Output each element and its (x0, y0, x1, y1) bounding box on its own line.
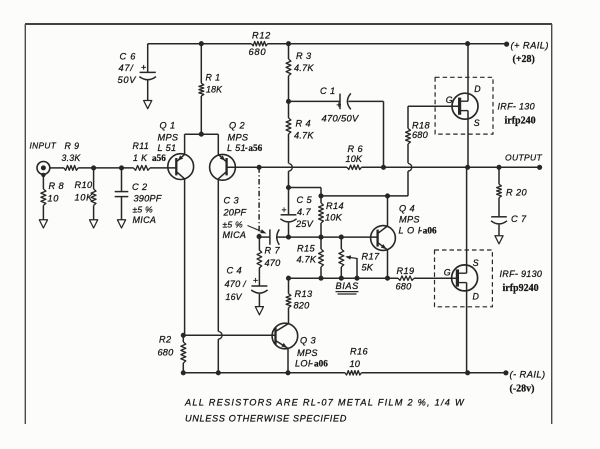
svg-text:C 3: C 3 (224, 196, 240, 206)
svg-text:MPS: MPS (228, 133, 249, 143)
svg-text:Q 1: Q 1 (160, 121, 176, 131)
svg-text:680: 680 (249, 46, 267, 57)
svg-text:-: - (310, 359, 313, 369)
label -28v (510, 384, 535, 395)
svg-text:10K: 10K (346, 154, 363, 164)
svg-text:10K: 10K (325, 213, 343, 223)
svg-text:4.7: 4.7 (297, 207, 311, 217)
node INPUT jack (30, 141, 57, 177)
svg-text:+: + (282, 205, 287, 215)
svg-text:Q 4: Q 4 (399, 204, 415, 214)
resistor R14 10K (319, 196, 344, 237)
resistor R15 4.7K (297, 237, 324, 278)
svg-text:R2: R2 (159, 335, 172, 345)
svg-text:+: + (336, 100, 341, 110)
resistor R16 10 (345, 346, 369, 375)
node +RAIL terminal (504, 40, 549, 51)
svg-text:IRF- 130: IRF- 130 (498, 102, 535, 112)
svg-text:R 6: R 6 (348, 144, 364, 154)
svg-text:470/50V: 470/50V (322, 113, 359, 124)
svg-text:20PF: 20PF (223, 208, 248, 218)
svg-text:G: G (444, 267, 451, 277)
svg-text:10K: 10K (75, 193, 94, 203)
svg-text:BIAS: BIAS (336, 281, 360, 291)
svg-text:470 /: 470 / (225, 279, 248, 289)
svg-text:S: S (473, 258, 479, 268)
resistor R1 18K (199, 44, 223, 135)
svg-text:OUTPUT: OUTPUT (505, 152, 542, 162)
ground (C2) (117, 220, 125, 228)
note: all resistors are RL-07 metal film (184, 398, 465, 424)
svg-text:4.7K: 4.7K (294, 131, 314, 141)
label +28 (513, 54, 535, 65)
svg-text:R 3: R 3 (296, 51, 312, 61)
svg-text:MICA: MICA (133, 215, 157, 225)
wire Q2 collector to bottom rail (216, 179, 222, 376)
svg-text:R15: R15 (297, 244, 316, 254)
svg-text:R12: R12 (252, 31, 271, 41)
svg-text:MPS: MPS (158, 133, 179, 143)
svg-text:IRF- 9130: IRF- 9130 (500, 269, 543, 279)
svg-text:C 4: C 4 (227, 266, 243, 276)
resistor R11 1K (133, 141, 177, 170)
resistor R6 10K (346, 144, 364, 169)
svg-text:Q 2: Q 2 (229, 121, 245, 131)
svg-text:R18: R18 (412, 120, 431, 130)
wire common emitters node (185, 132, 219, 137)
node OUTPUT terminal (505, 152, 542, 170)
svg-text:(+ RAIL): (+ RAIL) (511, 40, 549, 51)
resistor R19 680 (396, 266, 415, 292)
ground (C4) (255, 307, 263, 315)
svg-text:680: 680 (412, 130, 429, 140)
wire input line (50, 165, 134, 170)
svg-text:LOI: LOI (295, 359, 311, 369)
node -RAIL terminal (503, 369, 545, 380)
wire node C5/R4 junction (286, 185, 321, 196)
svg-text:a56: a56 (152, 153, 166, 163)
svg-text:C 6: C 6 (120, 52, 137, 62)
transistor Q3 MPS-L01-a06 (272, 323, 328, 373)
svg-text:C 1: C 1 (320, 86, 336, 96)
svg-text:R17: R17 (362, 252, 381, 262)
svg-text:470: 470 (265, 258, 282, 268)
transistor Q1 MPS-L51 (158, 121, 194, 336)
resistor R20 (497, 167, 528, 217)
svg-text:50V: 50V (118, 75, 137, 85)
potentiometer R17 5K (339, 237, 380, 278)
wire top rail (+) (148, 41, 507, 46)
svg-text:-: - (419, 226, 422, 236)
svg-text:18K: 18K (206, 85, 223, 95)
svg-text:(+28): (+28) (513, 54, 535, 65)
svg-text:820: 820 (294, 301, 311, 311)
svg-text:a56: a56 (248, 143, 262, 153)
svg-text:+: + (253, 276, 258, 286)
svg-text:L 51: L 51 (158, 143, 177, 153)
svg-text:47/: 47/ (119, 63, 135, 73)
svg-text:-: - (245, 143, 248, 153)
transistor Q4 MPS-L01-a06 (371, 196, 437, 278)
capacitor C6 47/50V (118, 44, 157, 101)
transistor Q2 MPS-L51-a56 (210, 121, 263, 181)
resistor R10 10K (75, 168, 97, 220)
resistor R4 4.7K (286, 101, 314, 187)
resistor R7 470 (257, 237, 281, 286)
svg-text:4.7K: 4.7K (297, 255, 317, 265)
svg-text:C 7: C 7 (511, 214, 527, 224)
capacitor C3 20PF MICA (223, 196, 289, 245)
resistor R9 3.3K (62, 141, 82, 170)
svg-text:R11: R11 (133, 141, 150, 151)
wire R2 node to Q3 base (183, 334, 275, 336)
svg-text:25V: 25V (295, 219, 314, 229)
svg-text:R19: R19 (397, 266, 415, 276)
svg-text:10: 10 (350, 359, 361, 369)
resistor R3 4.7K (286, 44, 314, 102)
resistor R12 680 (249, 31, 271, 58)
svg-text:R 8: R 8 (49, 181, 65, 191)
resistor R13 820 (286, 278, 313, 323)
svg-text:5K: 5K (362, 263, 374, 273)
svg-text:10: 10 (48, 194, 60, 204)
svg-text:R 4: R 4 (296, 119, 312, 129)
capacitor C4 470/16V (225, 266, 268, 307)
svg-text:L O I: L O I (399, 226, 421, 236)
capacitor C7 (491, 214, 527, 236)
svg-text:a06: a06 (423, 226, 437, 236)
svg-text:INPUT: INPUT (30, 141, 57, 151)
svg-text:S: S (474, 118, 480, 128)
svg-text:16V: 16V (226, 292, 243, 302)
svg-text:+: + (141, 63, 146, 73)
svg-text:680: 680 (396, 282, 413, 292)
svg-text:4.7K: 4.7K (294, 63, 314, 73)
ground (R10) (90, 220, 98, 228)
capacitor C1 470/50V (289, 86, 384, 167)
svg-text:D: D (474, 84, 481, 94)
node R3/R4/C1 junction (286, 99, 291, 104)
svg-text:C 2: C 2 (132, 182, 148, 192)
svg-text:(-28v): (-28v) (510, 384, 535, 395)
svg-text:±5 %: ±5 % (223, 220, 243, 230)
svg-text:±5 %: ±5 % (133, 205, 153, 215)
svg-text:1 K: 1 K (133, 153, 148, 163)
svg-text:G: G (446, 95, 453, 105)
svg-text:R 1: R 1 (206, 73, 221, 83)
svg-text:R10: R10 (75, 180, 94, 190)
wire Q2 base dash-dot to C3 (257, 167, 262, 239)
svg-text:C 5: C 5 (297, 195, 313, 205)
wire feedback bus (286, 235, 378, 240)
svg-text:MICA: MICA (223, 230, 247, 240)
wire bottom rail (-) (181, 370, 506, 375)
svg-text:a06: a06 (314, 359, 328, 369)
svg-text:R 9: R 9 (65, 141, 80, 151)
svg-text:R 20: R 20 (506, 188, 527, 198)
svg-text:R13: R13 (295, 289, 314, 299)
resistor R8 10 (41, 175, 65, 220)
wire output/feedback line (227, 165, 540, 170)
capacitor C2 390PF MICA (115, 168, 163, 225)
svg-text:irfp240: irfp240 (505, 116, 536, 127)
svg-text:ALL RESISTORS ARE RL-07 METAL: ALL RESISTORS ARE RL-07 METAL FILM 2 %, … (184, 398, 465, 408)
ground (R8) (39, 220, 47, 228)
svg-text:390PF: 390PF (134, 194, 163, 204)
svg-text:MPS: MPS (399, 215, 420, 225)
svg-text:(- RAIL): (- RAIL) (510, 369, 546, 380)
svg-text:R 7: R 7 (265, 246, 281, 256)
svg-text:3.3K: 3.3K (62, 153, 82, 163)
wire Q4 collector line (318, 193, 408, 198)
svg-text:MPS: MPS (297, 348, 318, 358)
node BIAS (336, 281, 360, 294)
mosfet IRF-9130 / irfp9240 (435, 167, 543, 372)
mosfet IRF-130 / irfp240 (408, 44, 536, 168)
svg-text:680: 680 (158, 348, 175, 358)
svg-text:irfp9240: irfp9240 (503, 283, 539, 294)
svg-text:L 51: L 51 (227, 143, 246, 153)
capacitor C5 4.7/25V (280, 188, 313, 238)
ground (C6) (144, 101, 152, 109)
wire bias bus (286, 276, 457, 281)
ground (C7) (495, 236, 503, 244)
svg-text:R14: R14 (326, 201, 344, 211)
svg-text:D: D (473, 292, 480, 302)
resistor R18 680 (406, 106, 431, 196)
svg-text:R16: R16 (350, 346, 369, 356)
svg-text:Q 3: Q 3 (300, 336, 316, 346)
resistor R2 680 (158, 333, 186, 373)
label a56 (Q1) (152, 153, 166, 163)
svg-text:UNLESS OTHERWISE SPECIFIED: UNLESS OTHERWISE SPECIFIED (185, 414, 347, 424)
